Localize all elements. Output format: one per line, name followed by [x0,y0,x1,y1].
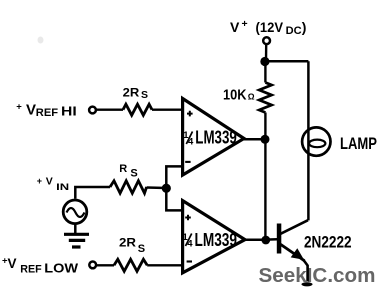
svg-text:S: S [141,89,148,101]
svg-text:2N2222: 2N2222 [304,232,352,251]
wire VREF HI to resistor [96,108,123,110]
svg-text:LOW: LOW [44,262,78,276]
wire U2 output [244,239,266,242]
svg-text:SeekIC.com: SeekIC.com [259,264,376,287]
svg-text:S: S [130,167,137,179]
node VREF HI terminal [89,107,96,114]
svg-text:): ) [302,19,307,35]
resistor R2 2RS top [123,104,152,115]
wire top rail [265,60,309,63]
wire lamp branch vertical [307,61,310,220]
wire resistor to U2 minus input [147,264,182,266]
label 10K ohm [223,87,255,104]
wire VIN stub [75,187,110,199]
junction dot C [261,236,270,245]
svg-text:4: 4 [188,136,194,147]
wire output bus vertical [264,139,266,240]
label +VIN [37,176,70,193]
wire V+ stub [265,44,268,61]
label +VREF HI [16,101,76,119]
svg-text:+: + [16,102,22,113]
svg-text:V: V [26,101,36,118]
svg-text:LAMP: LAMP [340,134,377,153]
source V1 sine [63,200,87,224]
label 2RS bottom [119,235,145,255]
svg-text:10K: 10K [223,87,247,104]
wire node C to base [266,238,278,241]
wire node D to U2 plus input [166,188,182,210]
svg-text:REF: REF [36,107,58,119]
wire U1 output [243,138,265,141]
wire VREF LOW to resistor [96,264,114,266]
svg-text:IN: IN [56,182,69,193]
wire 10K top lead [264,62,266,83]
label +VREF LOW [2,256,78,276]
ground GND1 [64,234,89,247]
resistor R3 RS [110,181,147,193]
lamp DS1 [302,127,330,155]
wire 10K bottom lead [264,113,266,140]
svg-text:LM339: LM339 [195,230,238,250]
svg-text:V: V [8,256,17,271]
faint scan smudge [38,37,44,44]
node VREF LOW terminal [89,262,96,269]
resistor R1 10K [259,83,271,113]
label 2RS top [123,85,148,101]
node V+ terminal [263,37,270,44]
svg-text:4: 4 [187,238,193,249]
op-amp U1 1/4 LM339 upper [183,99,244,176]
wire resistor to U1 plus input [152,108,182,110]
label V+ (12VDC) [230,18,306,37]
svg-text:(12V: (12V [256,19,284,35]
svg-text:2R: 2R [123,85,140,99]
svg-text:+: + [37,176,42,186]
svg-text:HI: HI [61,104,77,118]
wire node D to U1 minus input [166,166,182,188]
junction dot B [261,135,270,144]
svg-text:2R: 2R [119,235,136,249]
wire source to ground [74,224,77,234]
svg-text:V: V [230,19,240,35]
svg-text:Ω: Ω [248,92,255,102]
transistor Q1 2N2222 [277,220,313,286]
junction dot A [260,57,269,66]
junction dot D [162,184,171,193]
svg-text:+: + [242,18,248,30]
svg-text:LM339: LM339 [195,127,237,147]
wire RS to node D [147,186,167,189]
svg-text:DC: DC [286,25,302,37]
op-amp U2 1/4 LM339 lower [183,201,246,273]
svg-text:V: V [46,176,53,188]
label RS [119,163,137,179]
svg-text:R: R [119,163,127,175]
svg-text:REF: REF [20,264,42,276]
svg-text:S: S [138,243,145,255]
resistor R4 2RS bottom [114,259,147,271]
